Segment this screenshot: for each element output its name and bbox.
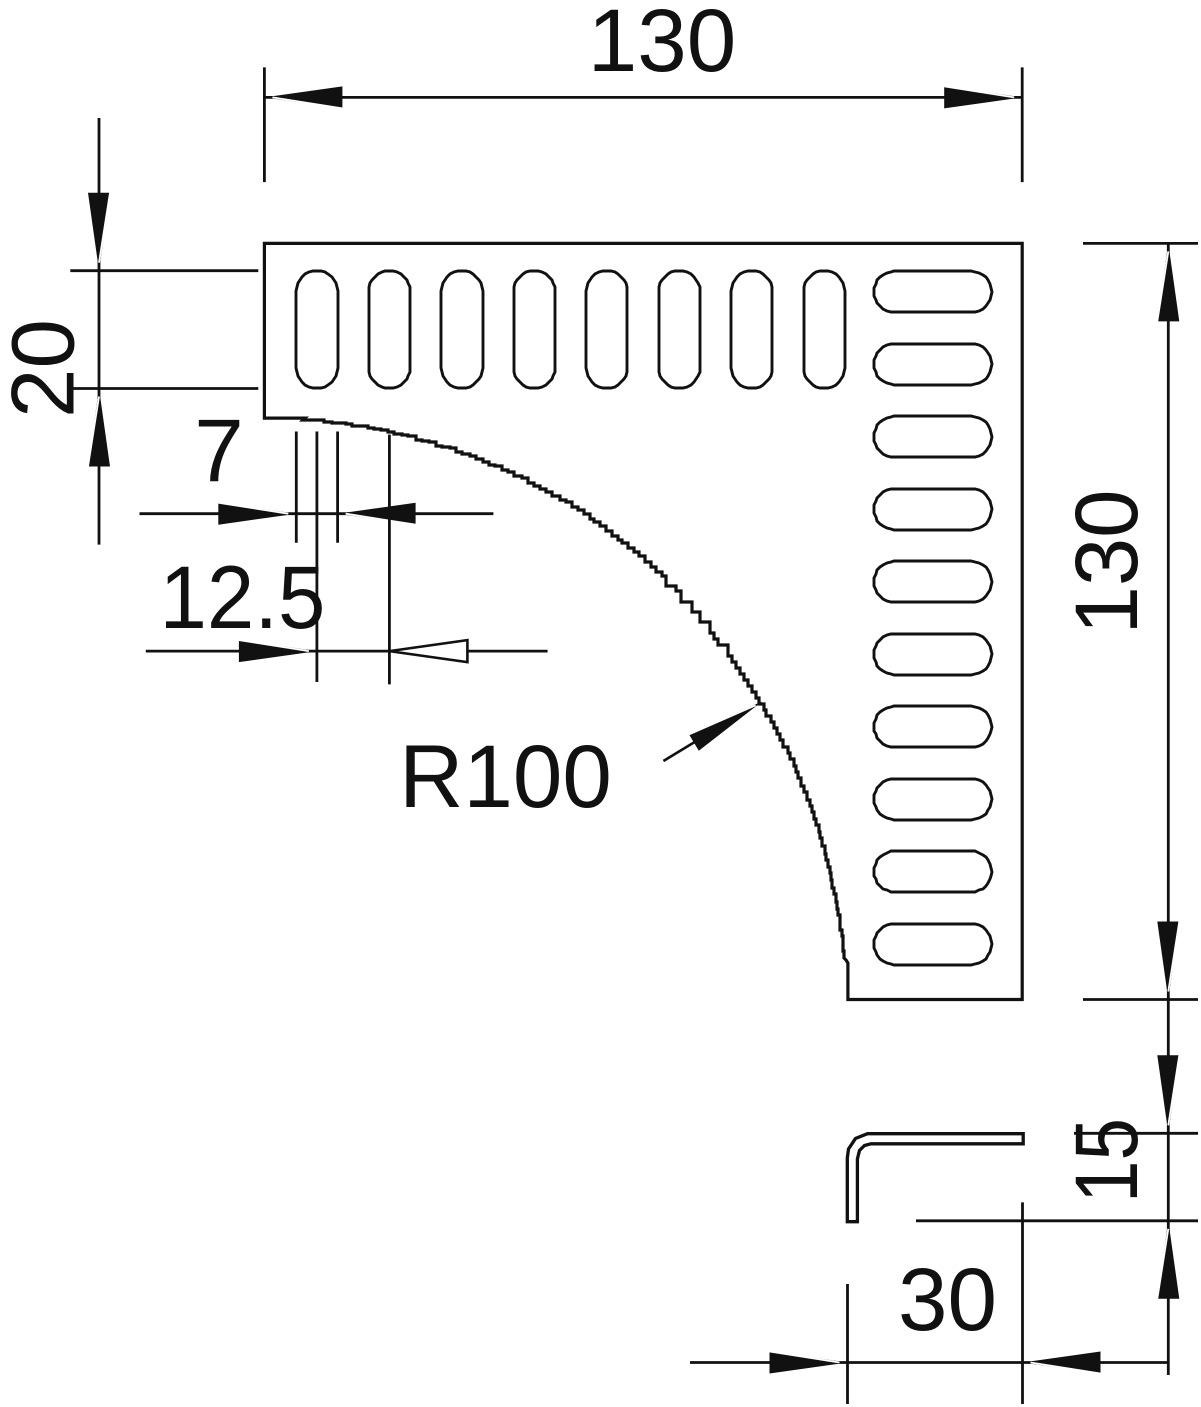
- dim 30: extension lines: [846, 1284, 849, 1404]
- svg-text:130: 130: [588, 0, 737, 90]
- part outline: 90 degree flat corner bracket with R100 inner arc: [264, 243, 1022, 999]
- slot right-column 2 (20x7): [874, 344, 992, 385]
- slot top-row 5 (7x20): [586, 271, 627, 388]
- R100 leader line and arrowhead pointing at arc: [663, 723, 726, 761]
- svg-text:30: 30: [898, 1249, 997, 1349]
- slot top-row 4 (7x20): [514, 271, 555, 388]
- dim 130 top: extension lines: [263, 67, 266, 182]
- dim 7: dimension line with outside arrows: [140, 512, 494, 515]
- dim 12.5: dimension line, left filled arrow, right open arrow: [146, 650, 548, 653]
- dim 20 left: dimension line with outside arrows: [98, 118, 101, 545]
- svg-text:130: 130: [1056, 490, 1156, 635]
- slot top-row 7 (7x20): [731, 271, 772, 388]
- dim 130 right: extension lines: [1083, 242, 1198, 245]
- dim 30: dimension line with outside arrows: [690, 1361, 1168, 1364]
- svg-text:12.5: 12.5: [160, 547, 326, 647]
- slot right-column 10 (20x7): [874, 924, 992, 965]
- svg-text:20: 20: [0, 319, 93, 418]
- dim 7: extension lines: [295, 432, 298, 543]
- svg-text:7: 7: [194, 400, 244, 500]
- dim 12.5: extension lines: [315, 432, 318, 683]
- slot top-row 1 (7x20): [296, 271, 338, 388]
- slot top-row 6 (7x20): [659, 271, 700, 388]
- slot right-column 8 (20x7): [874, 779, 992, 820]
- svg-text:15: 15: [1056, 1118, 1156, 1203]
- slot right-column 1 (20x7): [874, 271, 992, 312]
- dim 130 top: dimension line with arrows: [264, 96, 1022, 99]
- slot right-column 9 (20x7): [874, 851, 992, 892]
- dim 20 left: extension lines: [70, 269, 258, 272]
- slot right-column 4 (20x7): [874, 489, 992, 530]
- slot right-column 3 (20x7): [874, 416, 992, 457]
- dim 15: outside arrows on shared vertical line: [1157, 1055, 1179, 1133]
- slot right-column 6 (20x7): [874, 634, 992, 675]
- slot right-column 5 (20x7): [874, 561, 992, 602]
- slot top-row 8 (7x20): [804, 271, 845, 388]
- side profile: L-shaped sheet cross section 30x15: [847, 1134, 1023, 1222]
- slot top-row 3 (7x20): [441, 271, 483, 388]
- slot top-row 2 (7x20): [369, 271, 410, 388]
- dim 15: extension lines: [1074, 1132, 1198, 1135]
- dim 130 right: dimension line (continues down for dim 15): [1167, 243, 1170, 1375]
- slot right-column 7 (20x7): [874, 706, 992, 747]
- svg-text:R100: R100: [399, 726, 612, 826]
